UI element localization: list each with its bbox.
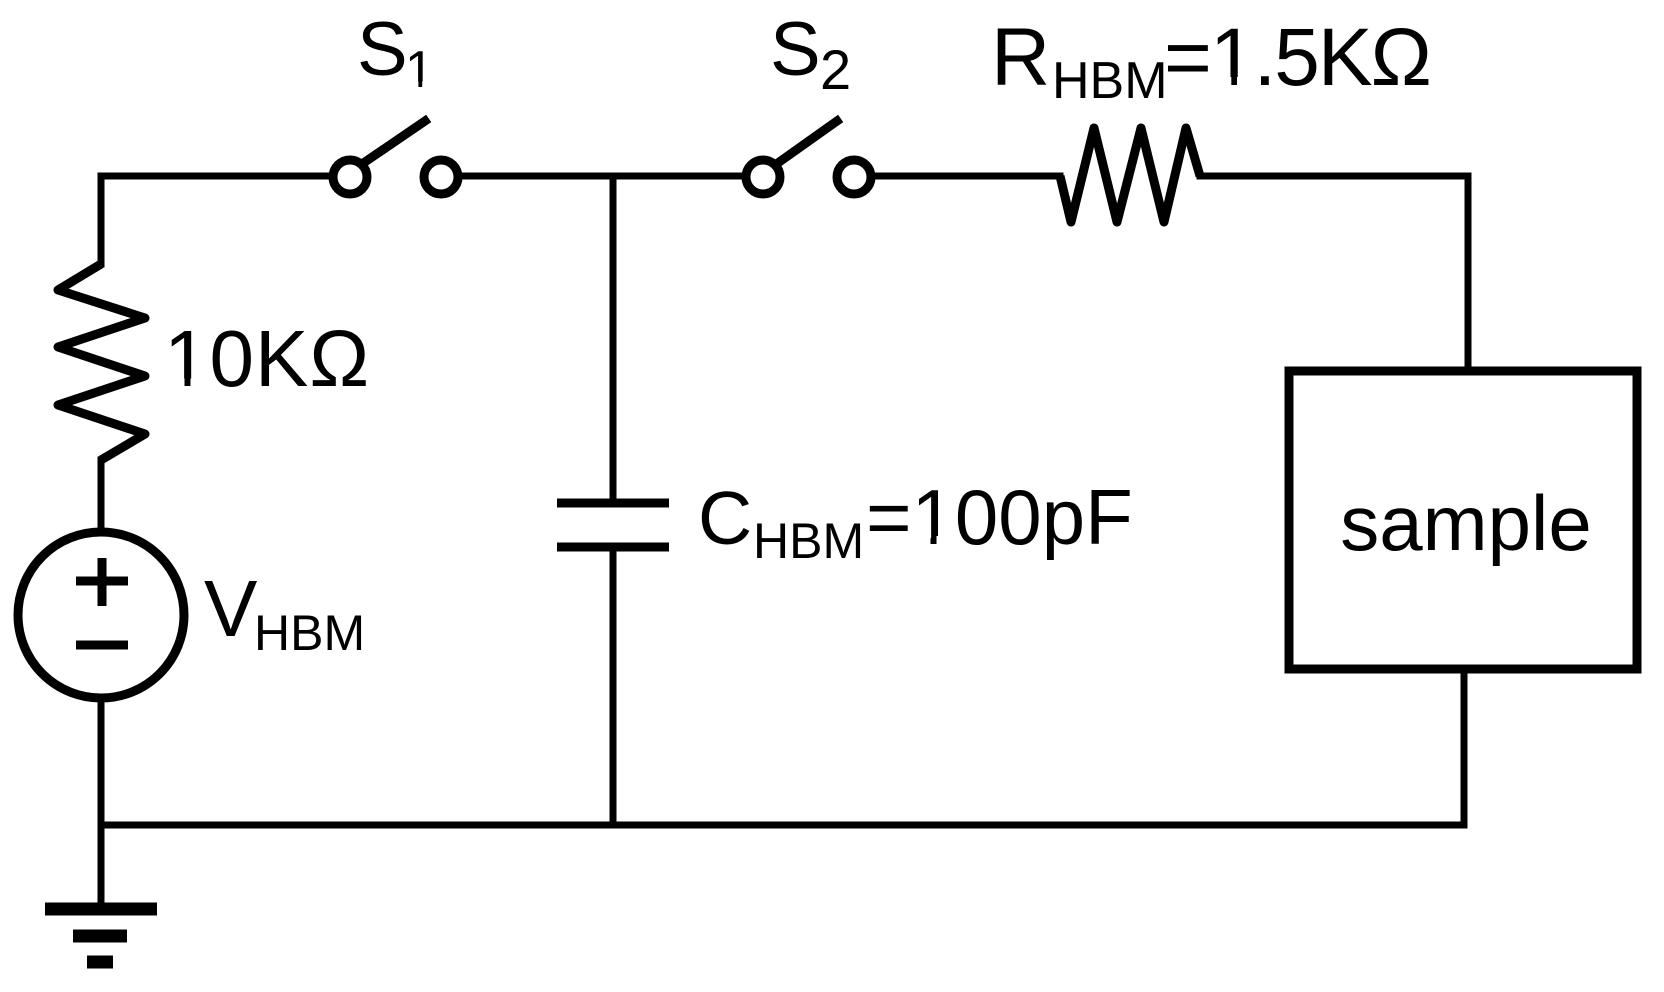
svg-text:sample: sample — [1340, 479, 1591, 567]
svg-text:10KΩ: 10KΩ — [164, 314, 370, 403]
svg-text:HBM: HBM — [753, 513, 864, 569]
svg-text:1: 1 — [405, 41, 434, 99]
svg-text:C: C — [698, 476, 752, 560]
svg-text:V: V — [204, 564, 258, 653]
svg-text:S: S — [770, 7, 821, 92]
svg-text:2: 2 — [820, 38, 851, 101]
svg-text:=1.5KΩ: =1.5KΩ — [1164, 12, 1430, 103]
svg-text:R: R — [991, 12, 1050, 103]
svg-text:=100pF: =100pF — [866, 473, 1133, 561]
svg-text:S: S — [357, 7, 408, 92]
svg-text:HBM: HBM — [254, 605, 365, 661]
svg-text:HBM: HBM — [1052, 52, 1168, 110]
